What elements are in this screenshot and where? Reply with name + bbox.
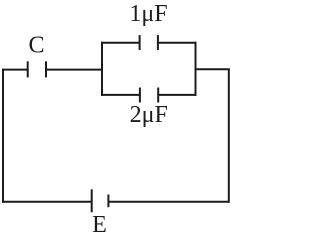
capacitor C2 (2uF) right plate [157,88,159,103]
battery E positive plate (long) [91,189,93,212]
wire: from capacitor C to parallel block left node [46,69,102,71]
battery E negative plate (short) [107,195,109,208]
wire: bottom rail left segment (to battery E) [2,201,92,203]
wire: top branch left segment to 1uF capacitor [101,42,140,44]
wire: outer loop left vertical [2,69,4,203]
svg-text:E: E [92,212,107,237]
svg-text:2μF: 2μF [130,102,168,128]
capacitor C1 (1uF) left plate [139,35,141,50]
svg-text:C: C [28,32,44,58]
wire: from parallel block right node to outer right vertical [196,68,230,70]
capacitor C right plate [45,61,47,77]
wire: bottom branch left segment to 2uF capacitor [101,94,140,96]
wire: bottom rail right segment (from battery E) [108,201,229,203]
wire: top branch right segment from 1uF capacitor [158,42,197,44]
svg-text:1μF: 1μF [129,1,167,27]
capacitor C2 (2uF) left plate [139,88,141,103]
node: parallel block right junction vertical [195,42,197,96]
capacitor C left plate [27,61,29,77]
wire: outer loop right vertical [228,69,230,203]
node: parallel block left junction vertical [101,42,103,96]
wire: top rail from left corner to capacitor C [2,69,28,71]
wire: bottom branch right segment from 2uF capacitor [158,94,196,96]
capacitor C1 (1uF) right plate [157,35,159,50]
